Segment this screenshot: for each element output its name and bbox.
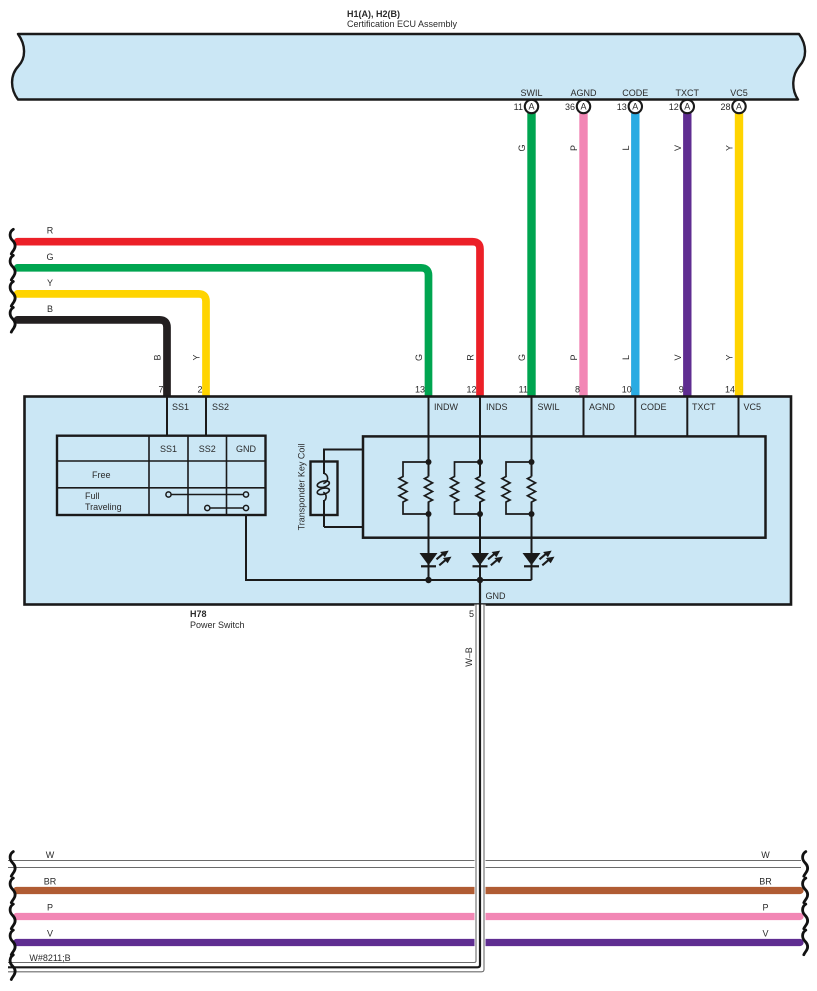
svg-text:A: A — [632, 102, 638, 112]
svg-text:10: 10 — [622, 385, 632, 395]
break squiggle P left — [10, 904, 15, 929]
svg-text:13: 13 — [617, 102, 627, 112]
break squiggle R — [10, 229, 15, 254]
svg-text:TXCT: TXCT — [692, 402, 716, 412]
svg-text:SS2: SS2 — [212, 402, 229, 412]
coil symbol — [317, 473, 330, 501]
break squiggle G — [10, 255, 15, 280]
contact line SS2-GND — [205, 505, 249, 510]
svg-text:Free: Free — [92, 470, 111, 480]
svg-text:H1(A), H2(B): H1(A), H2(B) — [347, 9, 400, 19]
wire CODE blue vertical — [631, 113, 639, 397]
switch state table — [57, 436, 266, 515]
svg-text:7: 7 — [158, 385, 163, 395]
svg-text:TXCT: TXCT — [676, 88, 700, 98]
resistor pair INDW — [399, 462, 433, 514]
svg-text:Transponder Key Coil: Transponder Key Coil — [297, 444, 307, 531]
node dots INDS — [477, 459, 483, 465]
pin 12 circle A — [669, 100, 694, 113]
pin stub SS2 — [205, 397, 207, 436]
ECU band H1/H2 Certification ECU Assembly — [12, 34, 805, 100]
svg-text:INDS: INDS — [486, 402, 508, 412]
LED INDW — [420, 551, 452, 567]
INDS wire through box — [479, 397, 481, 581]
break squiggle V left — [10, 930, 15, 955]
svg-text:BR: BR — [759, 877, 772, 887]
svg-text:V: V — [673, 145, 683, 151]
svg-text:GND: GND — [236, 444, 257, 454]
wire W-B vertical from GND — [475, 605, 486, 970]
break squiggle BR right — [803, 878, 808, 903]
wire table GND to LED bus — [246, 515, 532, 580]
break squiggle W right — [803, 852, 808, 877]
svg-text:A: A — [736, 102, 742, 112]
svg-text:P: P — [569, 354, 579, 360]
svg-text:Certification ECU Assembly: Certification ECU Assembly — [347, 19, 458, 29]
junction dot INDS bus — [477, 577, 483, 583]
SWIL wire through box — [531, 397, 533, 581]
svg-text:G: G — [517, 354, 527, 361]
INDW wire through box — [428, 397, 430, 581]
break squiggle W-B left — [10, 955, 15, 980]
wire B black from left — [18, 320, 168, 397]
contact line SS1-GND — [166, 492, 249, 497]
transponder coil box — [311, 462, 338, 516]
svg-text:P: P — [47, 903, 53, 913]
wire V horizontal — [17, 939, 801, 946]
pin stub VC5 — [738, 397, 740, 438]
power switch box H78 — [25, 397, 792, 605]
svg-text:H78: H78 — [190, 609, 207, 619]
pin stub CODE — [634, 397, 636, 438]
node dots INDW — [426, 459, 432, 465]
svg-text:28: 28 — [720, 102, 730, 112]
svg-text:AGND: AGND — [589, 402, 616, 412]
wire VC5 yellow vertical — [735, 113, 743, 397]
svg-text:2: 2 — [197, 385, 202, 395]
LED SWIL — [523, 551, 555, 567]
pin 13 circle A — [617, 100, 642, 113]
svg-text:W: W — [46, 850, 55, 860]
pin 36 circle A — [565, 100, 590, 113]
coil bottom wire — [324, 526, 363, 528]
svg-text:Power Switch: Power Switch — [190, 620, 245, 630]
svg-text:Y: Y — [47, 278, 53, 288]
svg-text:V: V — [673, 354, 683, 360]
svg-text:AGND: AGND — [570, 88, 597, 98]
svg-text:V: V — [47, 929, 53, 939]
svg-text:12: 12 — [669, 102, 679, 112]
wire SWIL green vertical — [527, 113, 535, 397]
svg-text:B: B — [47, 304, 53, 314]
svg-text:11: 11 — [514, 102, 523, 112]
svg-text:VC5: VC5 — [730, 88, 748, 98]
break squiggle Y — [10, 282, 15, 307]
svg-text:B: B — [153, 354, 163, 360]
svg-text:VC5: VC5 — [744, 402, 762, 412]
coil top wire — [324, 450, 363, 528]
resistor pair SWIL — [502, 462, 536, 514]
svg-text:L: L — [621, 355, 631, 360]
LED INDS — [471, 551, 503, 567]
svg-text:Y: Y — [192, 354, 202, 360]
svg-text:36: 36 — [565, 102, 575, 112]
svg-text:14: 14 — [725, 385, 735, 395]
pin stub AGND — [583, 397, 585, 438]
break squiggle P right — [803, 904, 808, 929]
wire GND drop — [479, 580, 481, 605]
svg-text:13: 13 — [415, 385, 425, 395]
node dots SWIL — [529, 459, 535, 465]
svg-text:V: V — [762, 929, 768, 939]
wire P horizontal — [17, 913, 801, 920]
svg-text:CODE: CODE — [641, 402, 667, 412]
svg-text:L: L — [621, 145, 631, 150]
wire BR horizontal — [17, 887, 801, 894]
pin stub SS1 — [166, 397, 168, 436]
svg-text:A: A — [580, 102, 586, 112]
svg-text:INDW: INDW — [434, 402, 458, 412]
svg-text:5: 5 — [469, 609, 474, 619]
svg-text:W–B: W–B — [464, 647, 474, 667]
svg-text:A: A — [528, 102, 534, 112]
svg-text:G: G — [46, 252, 53, 262]
svg-text:R: R — [47, 226, 54, 236]
junction dot INDW bus — [425, 577, 431, 583]
resistor pair INDS — [451, 462, 485, 514]
wire G green from left — [18, 268, 429, 397]
svg-text:SS1: SS1 — [160, 444, 177, 454]
svg-text:CODE: CODE — [622, 88, 648, 98]
svg-text:12: 12 — [466, 385, 476, 395]
svg-text:BR: BR — [44, 877, 57, 887]
pin 28 circle A — [720, 100, 745, 113]
svg-text:9: 9 — [679, 385, 684, 395]
wire W horizontal — [8, 860, 801, 868]
break squiggle W left — [10, 852, 15, 877]
svg-text:WW–B#8211;B: WW–B#8211;B — [29, 953, 70, 963]
wire Y yellow from left — [18, 294, 207, 397]
svg-text:W: W — [761, 850, 770, 860]
svg-text:P: P — [762, 903, 768, 913]
svg-text:G: G — [517, 144, 527, 151]
svg-text:8: 8 — [575, 385, 580, 395]
pin 11 circle A — [514, 100, 539, 113]
svg-text:SWIL: SWIL — [520, 88, 542, 98]
svg-text:Full: Full — [85, 491, 100, 501]
svg-text:11: 11 — [519, 385, 528, 395]
wire TXCT violet vertical — [683, 113, 691, 397]
svg-text:G: G — [414, 354, 424, 361]
svg-text:R: R — [466, 354, 476, 361]
wire AGND pink vertical — [579, 113, 587, 397]
svg-text:P: P — [569, 145, 579, 151]
break squiggle B — [10, 308, 15, 333]
svg-text:Y: Y — [725, 354, 735, 360]
wire R red from left — [18, 242, 481, 397]
svg-text:A: A — [684, 102, 690, 112]
break squiggle BR left — [10, 878, 15, 903]
pin stub TXCT — [686, 397, 688, 438]
svg-text:Y: Y — [725, 145, 735, 151]
break squiggle V right — [803, 930, 808, 955]
wire W-B horizontal bottom — [8, 961, 484, 973]
svg-text:SS1: SS1 — [172, 402, 189, 412]
svg-text:SS2: SS2 — [199, 444, 216, 454]
inner component box — [363, 436, 766, 537]
svg-text:SWIL: SWIL — [538, 402, 560, 412]
svg-text:GND: GND — [486, 591, 507, 601]
svg-text:Traveling: Traveling — [85, 502, 122, 512]
